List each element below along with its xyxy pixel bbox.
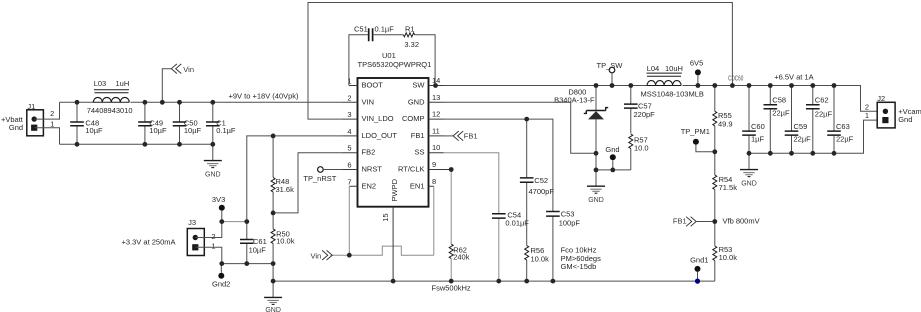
pin 15 PWPD label <box>381 178 399 221</box>
svg-text:TP_SW: TP_SW <box>597 61 624 70</box>
svg-text:10µF: 10µF <box>149 126 167 135</box>
junction TP_SW <box>610 83 615 88</box>
resistor R48 <box>271 136 294 229</box>
svg-text:J2: J2 <box>877 94 885 103</box>
svg-text:11: 11 <box>432 126 440 135</box>
junction FB1 tap <box>712 219 717 224</box>
svg-text:C59: C59 <box>794 122 808 131</box>
junction R56 bottom <box>524 279 529 284</box>
svg-text:L04: L04 <box>647 64 660 73</box>
junction C60 top <box>747 83 752 88</box>
junction CDC60 wire <box>730 83 735 88</box>
svg-text:J1: J1 <box>27 102 35 111</box>
junction D800 anode gnd <box>594 168 599 173</box>
inductor L04 <box>641 64 704 99</box>
svg-text:GND: GND <box>588 197 604 204</box>
svg-text:0.01µF: 0.01µF <box>505 218 529 227</box>
capacitor C54 <box>492 211 529 281</box>
svg-text:GND: GND <box>741 180 757 187</box>
svg-text:U01: U01 <box>382 51 396 60</box>
svg-text:Vfb 800mV: Vfb 800mV <box>723 216 760 225</box>
label Fsw <box>432 284 471 293</box>
wire EN net with hop <box>331 246 434 255</box>
capacitor C50 <box>173 102 202 144</box>
svg-text:1: 1 <box>211 242 215 251</box>
resistor R50 <box>271 229 295 264</box>
wire SW rail <box>444 86 878 112</box>
capacitor C52 <box>520 119 554 245</box>
svg-text:Gnd1: Gnd1 <box>690 256 708 265</box>
svg-text:1: 1 <box>347 77 351 86</box>
svg-text:0.1µF: 0.1µF <box>375 25 395 34</box>
svg-text:2: 2 <box>347 93 351 102</box>
connector J3 <box>122 218 216 256</box>
junction C49 bottom <box>143 142 148 147</box>
svg-text:FB2: FB2 <box>362 148 376 157</box>
ground below D800 <box>587 170 605 204</box>
svg-text:3.32: 3.32 <box>404 40 419 49</box>
inductor L03 <box>87 79 133 115</box>
ground input <box>204 144 222 178</box>
capacitor C57 <box>624 86 655 134</box>
junction C54 bottom <box>496 279 501 284</box>
label +9V <box>229 91 300 100</box>
test point TP_nRST <box>303 167 342 183</box>
pin stubs right <box>429 86 452 187</box>
test point TP_SW <box>597 61 624 86</box>
svg-text:8: 8 <box>432 177 436 186</box>
svg-text:22µF: 22µF <box>836 135 854 144</box>
svg-text:+6.5V at 1A: +6.5V at 1A <box>774 72 813 81</box>
junction Gnd flag <box>610 168 615 173</box>
svg-text:SS: SS <box>414 148 424 157</box>
node blue junction Gnd1 <box>695 279 700 284</box>
wire input bottom rail <box>60 143 213 145</box>
junction C62 top <box>810 83 815 88</box>
svg-text:9: 9 <box>432 160 436 169</box>
svg-text:B340A-13-F: B340A-13-F <box>554 95 595 104</box>
wire SS <box>444 153 499 214</box>
node Gnd1 flag <box>690 256 708 282</box>
svg-text:0.1µF: 0.1µF <box>216 126 236 135</box>
svg-text:TP_PM1: TP_PM1 <box>681 127 710 136</box>
svg-text:13: 13 <box>432 93 440 102</box>
svg-text:74408943010: 74408943010 <box>87 106 133 115</box>
svg-text:+9V to +18V (40Vpk): +9V to +18V (40Vpk) <box>229 91 300 100</box>
resistor R55 <box>713 86 733 176</box>
node FB1 flag pin11 <box>444 131 478 141</box>
svg-text:BOOT: BOOT <box>362 81 384 90</box>
wire EN1 down <box>433 186 435 255</box>
junction C59 top <box>789 83 794 88</box>
svg-text:C60: C60 <box>751 122 765 131</box>
svg-text:FB1: FB1 <box>464 131 478 140</box>
svg-text:Gnd2: Gnd2 <box>212 279 230 288</box>
node 3V3 flag <box>212 195 225 221</box>
svg-text:R1: R1 <box>405 25 415 34</box>
svg-text:COMP: COMP <box>402 114 425 123</box>
svg-text:10µF: 10µF <box>184 126 202 135</box>
svg-text:Gnd: Gnd <box>605 145 619 154</box>
svg-text:22µF: 22µF <box>772 109 790 118</box>
wire LDO_OUT <box>247 136 343 240</box>
junction 6V5 <box>696 83 701 88</box>
wire J3 pin1 <box>196 247 222 263</box>
svg-text:VIN_LDO: VIN_LDO <box>362 114 394 123</box>
svg-text:7: 7 <box>347 177 351 186</box>
svg-text:+3.3V at 250mA: +3.3V at 250mA <box>122 238 176 247</box>
wire J1 pin1 to input gnd rail <box>35 128 60 145</box>
svg-text:10.0k: 10.0k <box>531 255 550 264</box>
svg-text:100pF: 100pF <box>559 218 581 227</box>
capacitor C63 <box>827 86 853 154</box>
svg-text:GM<-15db: GM<-15db <box>561 262 597 271</box>
junction dot EN <box>347 253 352 258</box>
junction C62 bottom <box>810 151 815 156</box>
svg-text:TP_nRST: TP_nRST <box>303 174 336 183</box>
svg-text:Gnd: Gnd <box>9 123 23 132</box>
pin numbers left <box>347 77 351 187</box>
wire VIN_LDO to output <box>308 3 732 120</box>
junction C61 top <box>244 219 249 224</box>
svg-text:49.9: 49.9 <box>718 120 733 129</box>
svg-text:NRST: NRST <box>362 165 383 174</box>
resistor R57 <box>629 134 649 170</box>
op-amp U01 TPS65320 box <box>358 51 432 207</box>
svg-text:10µF: 10µF <box>85 126 103 135</box>
junction C63 top <box>832 83 837 88</box>
svg-text:LDO_OUT: LDO_OUT <box>362 131 398 140</box>
svg-text:Vin: Vin <box>183 65 194 74</box>
junction pin15 gnd <box>391 279 396 284</box>
junction R48 top <box>271 134 276 139</box>
svg-text:GND: GND <box>205 171 221 178</box>
wire 3V3 to LDO column <box>222 221 247 223</box>
junction dot RT/CLK <box>449 167 454 172</box>
node Vin flag bottom <box>311 250 333 260</box>
junction FB2 divider <box>271 211 276 216</box>
wire GND pin13 route <box>444 102 597 153</box>
svg-text:GND: GND <box>408 97 425 106</box>
label Vfb <box>723 216 760 225</box>
label compensation <box>561 246 601 272</box>
svg-text:4700pF: 4700pF <box>529 187 555 196</box>
svg-text:RT/CLK: RT/CLK <box>398 165 425 174</box>
ground output bank <box>740 153 758 187</box>
resistor R56 <box>525 246 549 282</box>
junction dot SW boot <box>433 83 438 88</box>
wire J1 pin2 to input rail <box>35 102 60 119</box>
svg-text:VIN: VIN <box>362 97 375 106</box>
connector J2 <box>865 94 921 128</box>
svg-text:EN2: EN2 <box>362 181 377 190</box>
junction 3V3 <box>219 219 224 224</box>
wire FB2 divider tap <box>273 153 342 213</box>
node 6V5 flag <box>690 58 703 85</box>
label CDC60 <box>728 75 744 83</box>
junction R50 bottom <box>271 261 276 266</box>
svg-text:22µF: 22µF <box>794 135 812 144</box>
wire COMP <box>444 119 553 211</box>
junction C48 top <box>75 100 80 105</box>
svg-text:6: 6 <box>347 161 351 170</box>
svg-text:15: 15 <box>381 213 390 221</box>
wire local gnd row <box>222 264 273 282</box>
svg-text:10: 10 <box>432 143 440 152</box>
capacitor C49 <box>138 102 167 144</box>
junction C59 bottom <box>789 151 794 156</box>
junction C61 bottom <box>244 261 249 266</box>
svg-text:10µF: 10µF <box>249 245 267 254</box>
svg-text:PWPD: PWPD <box>390 178 399 201</box>
pin names left <box>362 81 398 191</box>
svg-text:SW: SW <box>412 81 425 90</box>
svg-text:TPS65320QPWPRQ1: TPS65320QPWPRQ1 <box>358 60 432 69</box>
junction dot COMP <box>524 117 529 122</box>
svg-text:220pF: 220pF <box>634 110 656 119</box>
wire J3 pin2 <box>196 222 222 238</box>
svg-text:1: 1 <box>865 111 869 120</box>
junction C50 top <box>177 100 182 105</box>
svg-text:71.5k: 71.5k <box>719 183 738 192</box>
svg-text:6V5: 6V5 <box>690 58 703 67</box>
svg-text:10.0k: 10.0k <box>719 253 738 262</box>
svg-text:3: 3 <box>347 110 351 119</box>
capacitor C58 <box>764 86 790 154</box>
connector J1 <box>1 102 54 136</box>
test point TP_PM1 <box>681 127 715 152</box>
svg-text:Gnd: Gnd <box>898 115 912 124</box>
junction C58 bottom <box>768 151 773 156</box>
wire output bottom rail <box>749 120 877 153</box>
svg-text:Vin: Vin <box>311 251 322 260</box>
wire bottom gnd rail <box>273 280 715 282</box>
svg-text:L03: L03 <box>94 79 107 88</box>
resistor R62 <box>449 170 470 282</box>
svg-text:10.0: 10.0 <box>634 144 649 153</box>
junction C63 bottom <box>832 151 837 156</box>
pin stubs left <box>343 86 358 187</box>
junction TP_PM1 tap <box>712 149 717 154</box>
svg-text:C52: C52 <box>534 176 548 185</box>
capacitor C61 <box>240 237 267 264</box>
capacitor C1 <box>206 102 236 144</box>
junction C49 top <box>143 100 148 105</box>
wire EN2 down <box>348 186 350 255</box>
svg-text:12: 12 <box>432 110 440 119</box>
svg-text:J3: J3 <box>188 218 196 227</box>
svg-text:C58: C58 <box>772 96 786 105</box>
svg-text:C51: C51 <box>354 25 368 34</box>
svg-text:C53: C53 <box>561 210 575 219</box>
svg-text:4: 4 <box>347 127 351 136</box>
svg-text:1: 1 <box>50 120 54 129</box>
junction C48 bottom <box>75 142 80 147</box>
capacitor C51 <box>349 25 394 86</box>
junction D800 cathode <box>594 83 599 88</box>
svg-text:CDC60: CDC60 <box>728 75 744 83</box>
svg-text:C63: C63 <box>836 122 850 131</box>
svg-text:10uH: 10uH <box>665 64 683 73</box>
svg-text:C62: C62 <box>815 96 829 105</box>
svg-text:22µF: 22µF <box>815 110 833 119</box>
svg-text:10.0k: 10.0k <box>276 237 295 246</box>
junction C50 bottom <box>177 142 182 147</box>
resistor R53 <box>713 245 737 281</box>
junction IC gnd <box>594 151 599 156</box>
junction R62 bottom <box>449 279 454 284</box>
svg-text:2: 2 <box>211 232 215 241</box>
svg-text:5: 5 <box>347 144 351 153</box>
label +6.5V <box>774 72 813 81</box>
ground below C61 row <box>264 281 282 312</box>
capacitor C53 <box>546 210 580 282</box>
junction gnd rail left <box>271 279 276 284</box>
pin numbers right <box>432 76 440 186</box>
capacitor C60 <box>742 86 765 154</box>
node Gnd flag <box>605 145 619 170</box>
svg-text:1µF: 1µF <box>751 135 764 144</box>
junction J3 gnd <box>219 261 224 266</box>
capacitor C62 <box>806 86 832 154</box>
wire local gnd row sw <box>596 169 631 171</box>
svg-text:240k: 240k <box>453 252 470 261</box>
svg-text:GND: GND <box>265 307 281 312</box>
junction C1 bottom <box>210 142 215 147</box>
junction C58 top <box>768 83 773 88</box>
wire input top rail <box>60 101 343 103</box>
svg-text:MSS1048-103MLB: MSS1048-103MLB <box>641 90 704 99</box>
pin names right <box>398 81 425 191</box>
svg-text:FB1: FB1 <box>673 216 687 225</box>
svg-text:31.6k: 31.6k <box>276 185 295 194</box>
resistor R1 <box>373 25 436 86</box>
junction Vin tap <box>160 100 165 105</box>
capacitor C59 <box>785 86 811 154</box>
svg-text:3V3: 3V3 <box>212 195 225 204</box>
svg-text:2: 2 <box>50 109 54 118</box>
junction C53 bottom <box>551 279 556 284</box>
diode D800 <box>554 86 608 170</box>
svg-text:1uH: 1uH <box>116 79 130 88</box>
junction C60 bottom <box>747 151 752 156</box>
node FB1 flag right <box>673 216 715 226</box>
node Vin flag top <box>162 64 194 102</box>
svg-text:EN1: EN1 <box>410 181 425 190</box>
junction R55 top <box>712 83 717 88</box>
wire pin15 to gnd rail <box>392 207 394 281</box>
junction C57 top <box>628 83 633 88</box>
node Gnd2 flag <box>212 264 230 289</box>
junction C1 top <box>210 100 215 105</box>
resistor R54 <box>713 175 737 246</box>
svg-text:Fsw500kHz: Fsw500kHz <box>432 284 471 293</box>
svg-text:FB1: FB1 <box>411 131 425 140</box>
capacitor C48 <box>70 102 103 144</box>
